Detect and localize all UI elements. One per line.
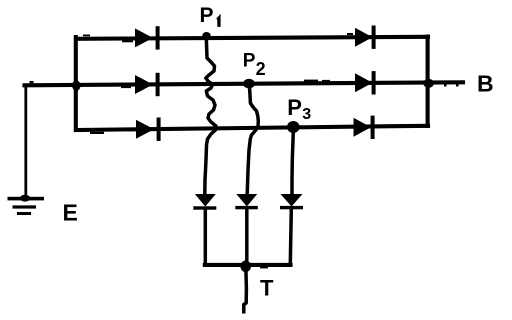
- svg-text:P: P: [287, 95, 302, 120]
- node P1 junction dot: [202, 32, 210, 39]
- svg-text:P: P: [243, 50, 256, 71]
- wire bottom middle leg: [245, 209, 249, 266]
- svg-text:E: E: [63, 200, 78, 226]
- node left bus junction dot: [72, 80, 80, 91]
- svg-text:B: B: [477, 70, 494, 96]
- scan noise ticks on bottom bus: [260, 267, 268, 269]
- node P2 junction dot: [243, 79, 255, 89]
- scan noise ticks on row 2: [304, 80, 318, 82]
- wire right bus vertical: [426, 37, 430, 126]
- diode D4 (row 1 right): [355, 26, 376, 49]
- wire drop from P3: [292, 128, 293, 195]
- wire terminal T tail: [244, 266, 247, 314]
- wire row 3 (bottom horizontal): [76, 126, 428, 130]
- wire wavy drop from P1: [205, 38, 216, 195]
- node bottom junction dot (T node): [240, 261, 251, 273]
- wire ground drop: [24, 85, 27, 199]
- diode D2 (row 2 left): [135, 73, 160, 96]
- wire left bus vertical: [74, 37, 78, 130]
- diode D3 (row 3 left): [136, 118, 161, 141]
- wire row 1 (top horizontal): [76, 37, 428, 39]
- wire bottom bus: [205, 263, 291, 267]
- diode D6 (row 3 right): [354, 116, 375, 139]
- node P3 junction dot: [287, 121, 300, 133]
- svg-text:3: 3: [302, 106, 311, 123]
- ground: [8, 195, 45, 215]
- diode D5 (row 2 right): [355, 71, 376, 94]
- diode D7 (bottom left, pointing down): [193, 194, 216, 210]
- wire row 2 (middle horizontal): [25, 82, 464, 85]
- label P2: [243, 50, 266, 79]
- svg-text:P: P: [200, 4, 214, 27]
- svg-text:2: 2: [256, 59, 266, 79]
- wire wavy drop from P2: [247, 84, 258, 195]
- wire bottom right leg: [290, 209, 291, 264]
- diode D9 (bottom right, pointing down): [280, 194, 303, 209]
- svg-text:T: T: [260, 276, 274, 301]
- scan noise ticks on row 3: [90, 132, 104, 134]
- diode D8 (bottom middle, pointing down): [235, 194, 257, 209]
- node right bus junction dot (B node): [423, 79, 434, 88]
- wire bottom left leg: [204, 209, 208, 265]
- diode D1 (row 1 left): [135, 26, 160, 49]
- label P3: [287, 95, 311, 123]
- scan noise ticks on row 1: [122, 40, 133, 42]
- label P1: [200, 4, 221, 27]
